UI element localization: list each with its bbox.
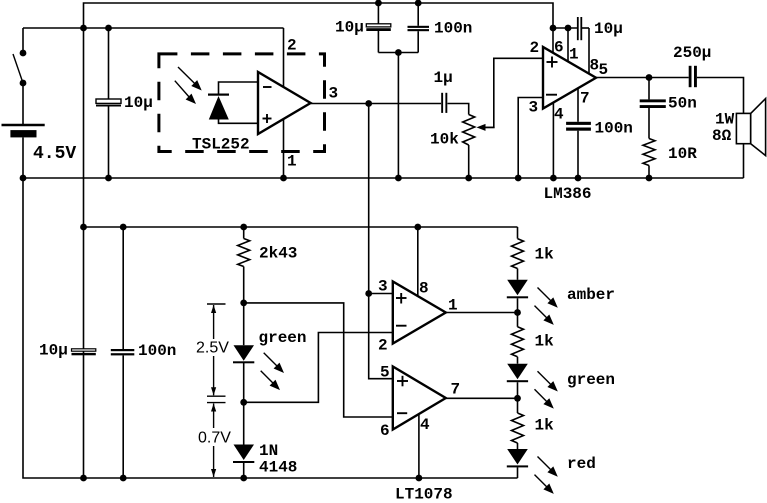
svg-text:2k43: 2k43	[259, 245, 297, 263]
svg-text:3: 3	[529, 99, 539, 117]
svg-text:4: 4	[420, 416, 430, 434]
svg-text:1k: 1k	[535, 417, 555, 435]
svg-text:4: 4	[554, 106, 564, 124]
svg-text:amber: amber	[567, 286, 615, 304]
svg-text:3: 3	[378, 278, 388, 296]
svg-text:0.7V: 0.7V	[198, 430, 231, 447]
svg-text:LT1078: LT1078	[395, 486, 453, 503]
svg-text:2.5V: 2.5V	[196, 340, 229, 357]
svg-text:6: 6	[380, 422, 390, 440]
svg-text:10R: 10R	[668, 145, 697, 163]
svg-text:1N: 1N	[259, 442, 278, 460]
svg-text:1µ: 1µ	[434, 69, 453, 87]
svg-text:green: green	[259, 329, 307, 347]
svg-text:10µ: 10µ	[124, 94, 153, 112]
svg-text:250µ: 250µ	[673, 44, 711, 62]
svg-text:8: 8	[419, 280, 429, 298]
svg-text:50n: 50n	[668, 95, 697, 113]
svg-text:100n: 100n	[595, 120, 633, 138]
svg-text:5: 5	[380, 364, 390, 382]
svg-text:4.5V: 4.5V	[33, 144, 76, 164]
svg-text:1: 1	[448, 297, 458, 315]
svg-text:green: green	[567, 371, 615, 389]
svg-text:TSL252: TSL252	[192, 136, 250, 154]
svg-text:7: 7	[451, 381, 461, 399]
svg-text:10µ: 10µ	[39, 342, 68, 360]
svg-text:red: red	[567, 455, 596, 473]
svg-text:LM386: LM386	[544, 185, 592, 203]
svg-text:100n: 100n	[138, 342, 176, 360]
svg-text:1: 1	[569, 46, 579, 64]
svg-text:1: 1	[287, 153, 297, 171]
svg-text:8Ω: 8Ω	[712, 127, 732, 145]
svg-text:3: 3	[329, 84, 339, 102]
svg-text:1W: 1W	[715, 111, 735, 129]
svg-text:1k: 1k	[535, 333, 555, 351]
svg-text:2: 2	[530, 39, 540, 57]
svg-text:6: 6	[554, 39, 564, 57]
svg-text:4148: 4148	[259, 459, 297, 477]
svg-text:1k: 1k	[535, 246, 555, 264]
svg-text:2: 2	[287, 37, 297, 55]
svg-text:100n: 100n	[434, 20, 472, 38]
svg-text:10µ: 10µ	[335, 19, 364, 37]
svg-text:10µ: 10µ	[594, 20, 623, 38]
svg-text:2: 2	[378, 337, 388, 355]
svg-text:10k: 10k	[430, 131, 459, 149]
svg-text:5: 5	[599, 61, 609, 79]
svg-text:7: 7	[580, 90, 590, 108]
